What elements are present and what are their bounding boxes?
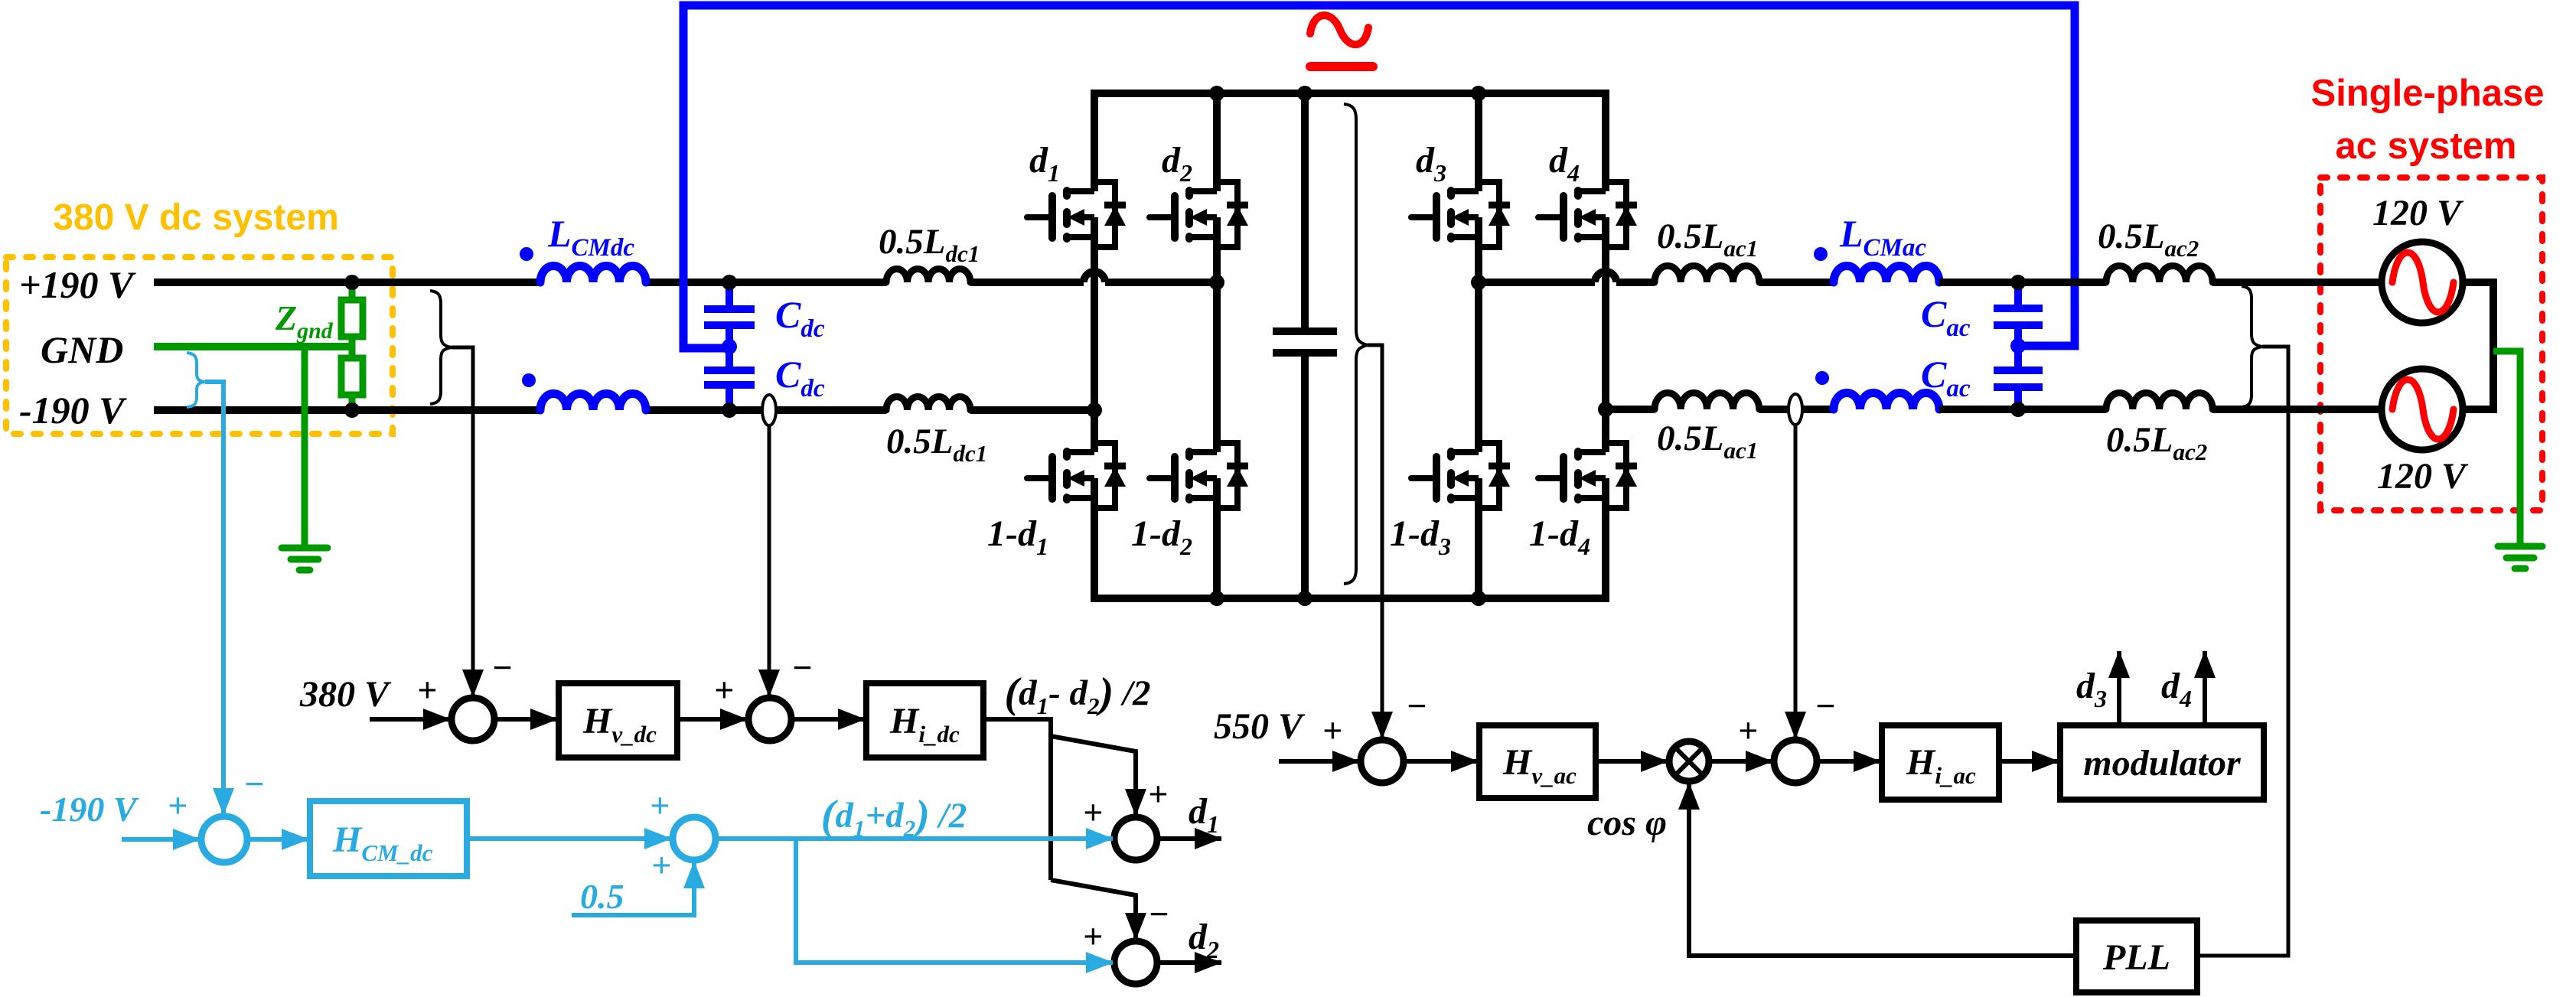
red converter symbol (sine over bar) (1310, 15, 1368, 44)
wire: leg 2 vertical segments (1213, 90, 1221, 602)
inductor L_CMac lower winding (1834, 393, 1939, 410)
wire: -190V rail (154, 406, 540, 414)
wire: leg3 midpoint to ac rail with crossover hump at leg4 (1479, 279, 1655, 286)
svg-text:+190 V: +190 V (19, 263, 136, 306)
transistor d4 (1538, 182, 1637, 247)
svg-text:550 V: 550 V (1214, 706, 1306, 747)
inductor 0.5L_ac2 lower (2106, 393, 2212, 409)
svg-text:+: + (651, 845, 671, 885)
transistor 1-d4 (1538, 443, 1637, 508)
svg-text:+: + (417, 670, 437, 709)
yellow dashed boundary: 380V dc system (6, 257, 393, 434)
node: -190V rail into leg 1 midpoint (1087, 402, 1102, 418)
svg-text:-190 V: -190 V (19, 389, 127, 432)
block PLL (2076, 920, 2197, 992)
node: top bus / leg2 (1209, 86, 1224, 101)
wire: top dc-link bus (1094, 90, 1606, 97)
wire: upper ac rail between L_CMac and 0.5L_ac2 (1939, 279, 2106, 286)
wire: 380V sense line down to summing node (452, 347, 473, 696)
transistor d2 (1149, 182, 1248, 247)
wire: summing node to H_i_ac (1817, 759, 1880, 764)
inductor L_CMdc upper winding (540, 266, 646, 283)
svg-text:−: − (1148, 894, 1169, 933)
wire: H_v_dc to current summing node (677, 717, 747, 722)
inductor 0.5L_ac1 lower (1655, 393, 1759, 410)
node: bottom bus / leg3 (1471, 591, 1486, 606)
node: C_dc midpoint (blue) (722, 339, 737, 354)
inductor 0.5L_dc1 lower (886, 397, 970, 411)
node: -190V / Zgnd junction (344, 402, 360, 418)
block H_v_ac (1479, 725, 1596, 798)
wire: H_v_ac to multiplier (1596, 759, 1668, 764)
wire: ac current sense line down to summing node (1794, 425, 1798, 738)
block H_v_dc (559, 683, 677, 758)
dc-link capacitor (1273, 93, 1337, 598)
wire: d1 output arrow (1157, 836, 1221, 841)
svg-text:+: + (714, 670, 734, 709)
wire: summing node to H_i_dc (791, 717, 865, 722)
svg-text:120 V: 120 V (2372, 193, 2464, 233)
svg-text:Single-phase: Single-phase (2311, 73, 2545, 114)
wire: H_CM_dc to cyan adder (467, 836, 671, 841)
ground symbol (green, left) (282, 548, 328, 570)
svg-text:ac system: ac system (2335, 125, 2516, 167)
svg-text:+: + (1083, 793, 1103, 832)
wire: summing node to H_v_ac (1404, 759, 1478, 764)
summing node: dc voltage loop (452, 698, 494, 741)
wire: green earth tap of ac neutral (2493, 351, 2520, 546)
node: leg3 midpoint (1471, 275, 1486, 290)
inductor 0.5L_ac1 upper (1655, 266, 1759, 283)
wire: upper ac rail between 0.5L_ac1 and L_CMac (1759, 279, 1834, 286)
wire: crossover hump over leg 1 (1084, 272, 1105, 282)
node: top bus / leg3 (1471, 86, 1486, 101)
block modulator (2060, 725, 2264, 800)
block H_i_ac (1882, 725, 1999, 800)
wire: 380V reference arrow into summing node (370, 717, 450, 722)
multiplier node (1669, 741, 1709, 781)
brace (black) spanning ac output voltage (2242, 286, 2262, 407)
wire: GND rail (green) (154, 343, 352, 350)
svg-text:380 V: 380 V (299, 674, 392, 715)
node: C_ac bottom on lower ac rail (2010, 402, 2026, 417)
wire: bottom dc-link bus (1094, 595, 1606, 602)
inductor L_CMac upper winding (1834, 266, 1939, 283)
svg-text:+: + (1738, 711, 1758, 750)
svg-text:+: + (168, 786, 187, 825)
svg-text:120 V: 120 V (2377, 456, 2469, 497)
wire: lower ac rail between L_CMac and 0.5L_ac2 (1939, 406, 2106, 413)
svg-text:−: − (243, 764, 265, 803)
brace (cyan) spanning GND and -190V (187, 353, 205, 407)
capacitor C_ac lower (1994, 346, 2043, 409)
svg-text:−: − (491, 648, 513, 687)
summing node: d1 (1114, 817, 1157, 860)
resistor Zgnd lower (349, 337, 356, 358)
inductor 0.5L_ac2 upper (2106, 266, 2212, 282)
wire: multiplier to ac current summing node (1709, 759, 1772, 764)
wire: upper ac rail into source (2212, 279, 2382, 286)
svg-text:(d1- d2) /2: (d1- d2) /2 (1004, 670, 1150, 719)
blue common-mode loop wire (top span with two verticals) (683, 5, 2075, 348)
wire: +190V rail (154, 279, 540, 286)
transistor 1-d3 (1411, 443, 1510, 508)
transistor d3 (1411, 182, 1510, 247)
wire: H_i_dc output with branch to d1 and d2 summing nodes (983, 719, 1051, 880)
svg-text:−: − (1406, 686, 1427, 725)
block H_CM_dc (cyan) (310, 801, 467, 876)
wire: leg4 midpoint to lower ac rail (1606, 406, 1655, 413)
node: C_ac top on upper ac rail (2010, 275, 2026, 290)
wire: H_i_ac to modulator (1999, 759, 2059, 764)
node: C_ac midpoint (blue) (2010, 338, 2026, 354)
summing node: common-mode loop (cyan) (201, 816, 247, 862)
node: bottom bus / leg2 (1209, 591, 1224, 606)
current sensor on -190V rail (762, 395, 776, 425)
node: +190V rail into leg 2 midpoint (1209, 275, 1224, 290)
transistor 1-d1 (1027, 443, 1126, 508)
ac source V1 (120 V) (2382, 242, 2463, 323)
transistor d1 (MOSFET with body diode) (1027, 182, 1126, 247)
svg-text:380 V dc system: 380 V dc system (53, 197, 339, 238)
svg-text:−: − (791, 648, 813, 687)
wire: crossover hump over leg 4 (1595, 272, 1616, 282)
wire: leg 3 vertical segments (1475, 90, 1482, 602)
node: C_dc bottom on -190V rail (722, 402, 737, 418)
wire: d2 output arrow (1157, 960, 1221, 965)
capacitor C_dc upper (704, 282, 755, 347)
wire: -190V rail after L_CMdc to bridge leg1 (646, 406, 1094, 414)
wire: lower ac rail into source (2212, 406, 2382, 413)
polarity dot L_CMdc upper (520, 247, 533, 261)
capacitor C_ac upper (1994, 282, 2043, 346)
svg-text:+: + (1148, 774, 1168, 813)
summing node: cyan adder (673, 817, 716, 860)
ac source V2 (120 V) (2382, 369, 2463, 450)
node: C_dc top on +190V rail (722, 275, 737, 290)
wire: leg 4 vertical segments (1602, 90, 1609, 602)
wire: 0.5 constant into cyan adder bottom (572, 862, 694, 915)
wire: right side connecting the two sources (2463, 282, 2493, 409)
svg-text:modulator: modulator (2083, 743, 2242, 784)
ground symbol (green, right) (2498, 546, 2542, 569)
inductor 0.5L_dc1 upper (886, 269, 970, 283)
polarity dot L_CMdc lower (522, 373, 536, 387)
wire: dc current sense line down to summing node (768, 425, 771, 696)
wire: +190V rail after L_CMdc to bridge with crossover hump at leg1 (646, 279, 1217, 286)
wire: modulator output d3 arrow (2117, 651, 2121, 725)
red dashed boundary: single-phase ac system (2320, 178, 2542, 510)
wire: cyan CM sense line down to -190V summing node (205, 382, 223, 815)
svg-text:−: − (1815, 686, 1836, 725)
summing node: d2 (1114, 941, 1157, 984)
summing node: dc-link voltage loop (1361, 740, 1404, 783)
wire: green earth drop from GND rail (302, 347, 308, 548)
wire: CM summing node to H_CM_dc (247, 837, 308, 842)
wire: modulator output d4 arrow (2203, 651, 2207, 725)
polarity dot L_CMac lower (1815, 371, 1829, 385)
svg-text:+: + (650, 786, 670, 825)
svg-text:cos φ: cos φ (1587, 803, 1667, 843)
resistor Zgnd upper (349, 282, 356, 300)
wire: lower ac rail between 0.5L_ac1 and L_CMac (1759, 406, 1834, 413)
summing node: dc current loop (748, 698, 791, 741)
transistor 1-d2 (1149, 443, 1248, 508)
wire: 550V reference arrow into summing node (1279, 759, 1359, 764)
svg-text:0.5: 0.5 (580, 877, 624, 916)
block H_i_dc (866, 683, 983, 758)
svg-text:-190 V: -190 V (40, 790, 139, 829)
wire: ac voltage sense line to PLL (2197, 347, 2288, 956)
node: top bus / dc-link cap (1297, 86, 1312, 101)
node: bottom bus / dc-link cap (1297, 591, 1312, 606)
svg-text:(d1+d2) /2: (d1+d2) /2 (821, 792, 967, 842)
inductor L_CMdc lower winding (540, 394, 646, 411)
node: +190V / Zgnd junction (344, 275, 360, 290)
brace (black) spanning +190V and -190V rails (430, 291, 452, 404)
svg-text:GND: GND (41, 328, 123, 371)
node: leg4 midpoint (1598, 402, 1613, 417)
polarity dot L_CMac upper (1814, 247, 1828, 261)
wire: summing node to H_v_dc (494, 717, 557, 722)
wire: -190V reference arrow into CM summing node (122, 837, 200, 842)
svg-text:PLL: PLL (2102, 937, 2170, 978)
svg-text:+: + (1083, 917, 1103, 956)
wire: 550V sense line down to summing node (1368, 345, 1382, 738)
summing node: ac current loop (1774, 740, 1817, 783)
wire: cyan adder output to d1 summing node with branch to d2 (716, 836, 1113, 841)
current sensor on lower ac rail (1789, 394, 1802, 425)
brace (black) spanning dc-link voltage (1344, 104, 1368, 584)
capacitor C_dc lower (704, 347, 755, 410)
wire: leg 1 vertical segments (1091, 90, 1098, 602)
wire: PLL output to multiplier bottom input (1689, 783, 2076, 956)
svg-text:+: + (1322, 711, 1342, 750)
